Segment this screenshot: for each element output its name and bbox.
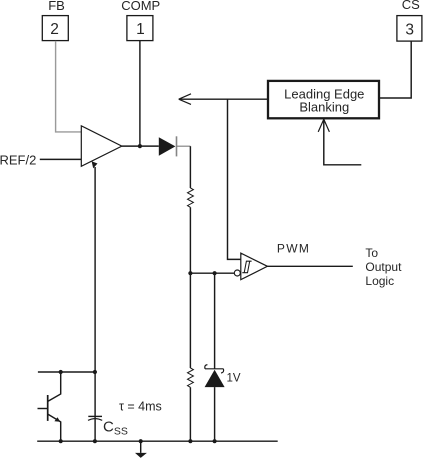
wire branch down to comparator <box>228 99 241 259</box>
svg-text:PWM: PWM <box>277 241 310 255</box>
svg-text:CS: CS <box>402 0 420 12</box>
svg-text:1V: 1V <box>227 373 241 385</box>
wire Q1 collector rail <box>38 371 95 373</box>
svg-text:1: 1 <box>136 21 145 38</box>
comparator PWM <box>241 253 268 280</box>
soft-start clamp arrow into op-amp <box>94 167 96 414</box>
zener diode VZ 1V <box>205 365 224 373</box>
resistor R2 <box>188 368 194 387</box>
node zener bottom <box>213 439 217 443</box>
node cap <box>93 439 97 443</box>
wire node to comparator bubble <box>190 272 234 274</box>
svg-text:REF/2: REF/2 <box>0 153 36 168</box>
capacitor CSS <box>94 414 96 441</box>
svg-text:COMP: COMP <box>121 0 160 13</box>
comparator hysteresis symbol <box>242 261 251 273</box>
svg-text:3: 3 <box>405 21 414 38</box>
transistor Q1 <box>47 395 49 421</box>
svg-text:τ = 4ms: τ = 4ms <box>119 399 162 413</box>
wire LEB output with arrow <box>179 98 268 100</box>
node R1/R2 junction <box>188 271 192 275</box>
wire R1 to node <box>189 207 191 273</box>
node emitter <box>59 439 63 443</box>
node collector <box>59 370 63 374</box>
clock arrow into LEB <box>324 121 362 165</box>
node COMP junction <box>138 144 142 148</box>
wire LEB to CS pin <box>379 41 411 98</box>
diode D1 <box>159 137 176 156</box>
op-amp U1 <box>81 126 122 167</box>
wire FB to op-amp (gray) <box>56 41 82 132</box>
Leading Edge Blanking box <box>268 81 379 118</box>
node ground <box>139 439 143 443</box>
wire node to zener <box>214 273 216 369</box>
pin box CS (3) <box>397 16 422 41</box>
pin box FB (2) <box>42 16 68 41</box>
wire op-amp output <box>122 145 159 147</box>
wire diode cathode stub <box>177 145 191 147</box>
comparator input bubble <box>234 270 240 276</box>
ground <box>140 441 142 453</box>
pin box COMP (1) <box>127 16 153 41</box>
wire R2 to rail <box>189 387 191 441</box>
bottom rail <box>37 440 278 442</box>
wire comparator output <box>267 265 352 267</box>
svg-text:FB: FB <box>48 0 65 13</box>
wire REF/2 to op-amp <box>40 158 82 160</box>
svg-text:2: 2 <box>50 21 59 38</box>
wire down to resistor R1 <box>189 146 191 188</box>
node R2 bottom <box>188 439 192 443</box>
svg-text:ToOutputLogic: ToOutputLogic <box>365 246 402 288</box>
wire COMP down to node <box>139 41 141 146</box>
node zener junction <box>213 271 217 275</box>
wire down to resistor R2 <box>189 273 191 368</box>
node soft-start <box>93 370 97 374</box>
resistor R1 <box>188 188 194 207</box>
svg-text:CSS: CSS <box>103 419 128 438</box>
